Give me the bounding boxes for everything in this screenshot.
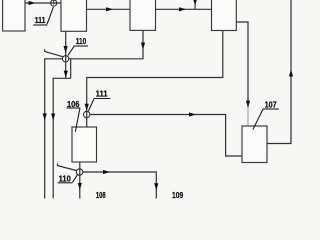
leader label 107	[253, 109, 263, 130]
box unit 2 (top cropped)	[61, 0, 87, 31]
underline label 111b	[94, 98, 110, 100]
wire box 106 down through mixer 110b (stream 108)	[79, 162, 81, 199]
wire box2 to box3	[87, 8, 131, 10]
wire box4 down across through mixer 111b to box 106	[87, 31, 223, 128]
mixer circle 110b	[76, 169, 82, 175]
leader label 111a	[47, 7, 53, 25]
arrow down on feed drop 195	[193, 0, 197, 5]
wire box3 to box4	[156, 8, 212, 10]
wire bottom output elbow left down	[53, 78, 70, 198]
svg-text:109: 109	[172, 191, 184, 200]
tick on mixer 111a	[53, 0, 55, 5]
box unit 1 (top cropped)	[3, 0, 25, 31]
arrow down into box 107	[246, 101, 250, 108]
wire feed hook into mixer 110a	[45, 49, 63, 57]
svg-text:110: 110	[59, 174, 72, 183]
arrow down into mixer 111b	[85, 104, 89, 111]
arrow up on recycle wire 291	[289, 70, 293, 77]
underline label 106	[67, 107, 81, 109]
svg-text:111: 111	[96, 90, 108, 99]
underline label 107	[263, 108, 279, 110]
leader label 110b	[73, 175, 78, 183]
arrow down box3 branch	[141, 43, 145, 50]
svg-text:111: 111	[35, 16, 46, 25]
arrow down left line 53.2	[51, 114, 55, 121]
wire box2 down through mixer 110a	[65, 31, 67, 78]
underline label 111a	[33, 24, 47, 26]
leader label 111b	[88, 98, 94, 111]
wire mixer 110a left output down to bottom	[45, 59, 63, 199]
svg-text:110: 110	[76, 37, 87, 46]
arrow right on wire 111b to 107	[189, 112, 196, 116]
arrow down on stream 109	[154, 183, 158, 190]
arrow down on stream 108	[78, 183, 82, 190]
arrow down mixer 110a bottom	[64, 71, 68, 78]
mixer circle 110a	[62, 56, 68, 62]
arrow right on box2-box3 wire	[106, 7, 113, 11]
underline label 110a	[75, 45, 89, 47]
wire box 107 right up to top (recycle)	[267, 0, 291, 144]
wire feed hook into mixer 110b	[58, 164, 77, 171]
box unit 4 (top cropped)	[212, 0, 237, 31]
wire mixer 111b right to box 107 left	[90, 115, 242, 157]
leader label 110a	[68, 46, 75, 56]
arrow down left line 44.7	[43, 114, 47, 121]
wire box1 to box2	[25, 2, 61, 4]
wire riser joining segment A to box3 return line	[70, 59, 72, 79]
wire box4 right elbow down to box 107 top	[236, 22, 248, 107]
arrow right on box1-box2 wire	[29, 1, 36, 5]
wire mixer 110b right then down (stream 109)	[83, 172, 157, 199]
wire box3 down into mixer 110a right	[69, 30, 143, 58]
underline label 110b	[58, 182, 73, 184]
mixer circle 111a	[51, 0, 57, 6]
arrow right on mixer 110b output	[103, 170, 110, 174]
svg-text:106: 106	[67, 100, 80, 109]
wire feed drop at node 195	[194, 0, 196, 9]
leader label 106	[75, 108, 80, 132]
box unit 107	[242, 126, 267, 163]
svg-text:107: 107	[265, 101, 277, 110]
box unit 106	[72, 127, 97, 162]
arrow right on box3-box4 wire	[179, 7, 186, 11]
svg-text:108: 108	[96, 191, 106, 200]
box unit 3 (top cropped)	[130, 0, 156, 30]
wire faint segment below arrow into box 107	[247, 107, 249, 126]
arrow down box2 to mixer 110a	[64, 46, 68, 53]
mixer circle 111b	[84, 111, 90, 117]
